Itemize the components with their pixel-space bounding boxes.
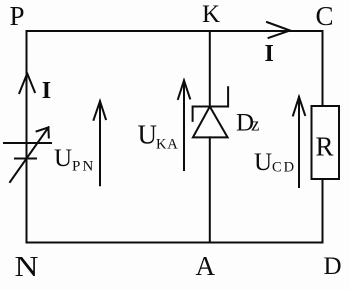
svg-text:D: D — [324, 253, 342, 280]
svg-text:z: z — [251, 115, 259, 136]
svg-text:U: U — [254, 149, 272, 176]
svg-text:KA: KA — [156, 137, 179, 153]
svg-text:PN: PN — [72, 159, 96, 175]
svg-text:N: N — [15, 252, 39, 283]
svg-text:I: I — [42, 78, 51, 104]
svg-text:CD: CD — [272, 160, 296, 176]
svg-text:P: P — [10, 1, 25, 31]
svg-text:K: K — [202, 1, 220, 28]
svg-text:U: U — [138, 120, 158, 150]
svg-text:C: C — [316, 1, 334, 31]
svg-text:R: R — [316, 132, 334, 162]
svg-text:A: A — [196, 251, 216, 281]
svg-text:U: U — [54, 145, 72, 172]
svg-text:I: I — [265, 41, 274, 67]
